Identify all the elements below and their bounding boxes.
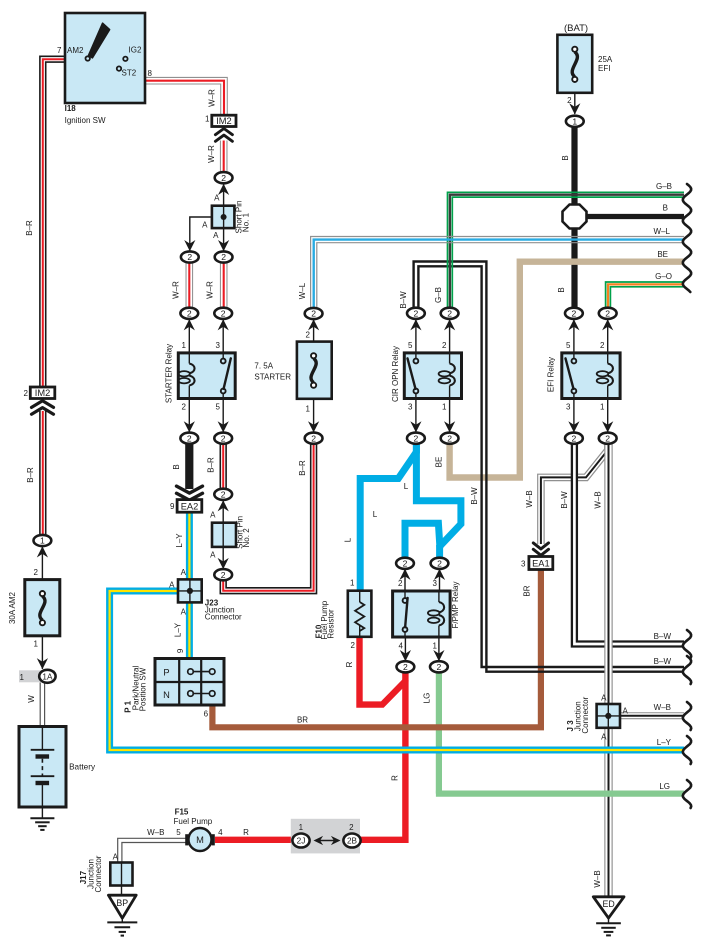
J3 junction connector box xyxy=(597,704,620,728)
wire W white from battery connector 1A to battery xyxy=(40,683,46,728)
svg-text:G–B: G–B xyxy=(656,182,672,191)
J17 junction connector box xyxy=(110,863,132,886)
starter relay pin 1 line xyxy=(188,320,190,354)
wire G-B from right edge to CIR OPN relay pin 2 xyxy=(448,192,685,308)
EFI relay pin 2 line xyxy=(607,320,609,354)
svg-text:2: 2 xyxy=(605,433,610,443)
svg-text:W–B: W–B xyxy=(525,490,534,507)
wire B-R from short pin No.2 bottom ellipse to 7.5A STARTER fuse pin 1 xyxy=(223,444,313,591)
svg-text:CIR OPN Relay: CIR OPN Relay xyxy=(391,346,400,402)
svg-text:W–L: W–L xyxy=(654,227,671,236)
short pin No.1 left branch line xyxy=(190,217,212,251)
svg-text:(BAT): (BAT) xyxy=(564,23,588,34)
svg-text:No. 2: No. 2 xyxy=(242,528,251,548)
svg-text:2: 2 xyxy=(437,558,442,568)
BP ground triangle xyxy=(108,895,136,918)
starter relay pin 3 line xyxy=(222,320,224,354)
svg-text:ED: ED xyxy=(602,899,614,909)
svg-text:2: 2 xyxy=(221,308,226,318)
svg-text:R: R xyxy=(391,775,400,781)
BP triangle stem xyxy=(121,918,123,922)
svg-text:L–Y: L–Y xyxy=(174,622,183,637)
ignition switch lever xyxy=(89,23,110,58)
svg-text:A: A xyxy=(181,568,187,577)
svg-text:1: 1 xyxy=(40,536,45,546)
svg-text:A: A xyxy=(169,581,175,590)
connector ellipses below F/PMP relay xyxy=(397,661,415,672)
svg-text:2: 2 xyxy=(306,331,311,340)
svg-text:B–W: B–W xyxy=(560,491,569,509)
connector ellipse below EFI fuse xyxy=(566,116,584,127)
svg-text:2: 2 xyxy=(33,568,38,577)
wire R red from fuel pump motor to connector 2J xyxy=(215,837,294,843)
svg-text:Resistor: Resistor xyxy=(326,609,335,639)
connector IM2 No.2 box xyxy=(30,387,55,399)
arrow into 30A AM2 fuse top ellipse xyxy=(37,546,48,557)
svg-text:2: 2 xyxy=(349,823,354,832)
F/PMP relay pin 2 line xyxy=(404,569,406,592)
connector ellipse above short pin No.2 xyxy=(214,489,232,500)
svg-text:A: A xyxy=(113,853,119,862)
Park/Neutral position SW P1 box xyxy=(155,659,224,706)
wire BE beige from CIR OPN relay pin 1 to right edge xyxy=(450,262,684,478)
fuel pump connector 2J 2B gray band xyxy=(291,819,360,854)
wire B from EFI fuse to junction node and EFI relay pin 5 (black) xyxy=(571,127,577,204)
wire L branch to F/PMP relay pin 2 xyxy=(405,523,440,558)
double chevron into EA2 xyxy=(177,493,203,500)
wire W-B from EFI relay pin 1 down through J3 to ED ground xyxy=(604,443,612,897)
svg-text:2: 2 xyxy=(351,641,356,650)
svg-text:No. 1: No. 1 xyxy=(241,212,250,232)
svg-text:B–R: B–R xyxy=(25,220,34,236)
svg-text:2J: 2J xyxy=(297,836,306,845)
double chevron into IM2 No.2 xyxy=(32,401,54,408)
svg-text:STARTER Relay: STARTER Relay xyxy=(164,344,173,403)
svg-text:B–R: B–R xyxy=(206,457,215,473)
svg-text:P: P xyxy=(163,668,169,678)
svg-text:STARTER: STARTER xyxy=(254,373,291,382)
svg-text:1: 1 xyxy=(299,823,304,832)
svg-text:1: 1 xyxy=(20,673,25,682)
svg-text:BR: BR xyxy=(297,716,308,725)
svg-text:B–R: B–R xyxy=(298,460,307,476)
wire B-R from ignition SW pin 7 to IM2 connector (left side) xyxy=(43,59,65,387)
J23 junction connector box xyxy=(178,579,202,602)
wire B-R from starter relay pin 5 to short pin No.2 xyxy=(219,443,226,489)
short pin No.1 bottom pin line xyxy=(223,228,225,251)
svg-text:Position SW: Position SW xyxy=(138,667,147,711)
svg-text:4: 4 xyxy=(218,828,223,837)
svg-text:A: A xyxy=(213,231,219,240)
wire W-B from fuel pump to J17 junction connector xyxy=(186,838,215,843)
svg-text:2: 2 xyxy=(24,389,29,398)
svg-text:L–Y: L–Y xyxy=(175,533,184,548)
30A AM2 fuse box xyxy=(25,580,60,636)
svg-text:B–W: B–W xyxy=(654,632,672,641)
J17 junction connector internal line and line to BP ground xyxy=(121,863,123,896)
wire G-O from right edge to EFI relay pin 2 xyxy=(606,282,684,308)
EFI relay pin 3 line xyxy=(573,399,575,433)
svg-text:AM2: AM2 xyxy=(67,46,84,55)
svg-text:2: 2 xyxy=(311,433,316,443)
connector ellipses below short pin No.1 xyxy=(181,251,199,262)
wire B-W from EFI relay pin 3 to right edge xyxy=(574,443,684,644)
short pin No.2 top pin line xyxy=(222,501,224,524)
wire B-W from CIR OPN relay pin 5 around to right edge (outer line) xyxy=(414,262,684,672)
svg-text:L: L xyxy=(373,510,378,519)
CIR OPN relay pin 3 line xyxy=(415,399,417,433)
svg-text:1: 1 xyxy=(600,403,605,412)
arrow into battery connector 1A ellipse xyxy=(37,658,48,669)
svg-text:B–R: B–R xyxy=(26,467,35,483)
svg-text:1: 1 xyxy=(442,403,447,412)
EFI fuse pin 2 line xyxy=(574,93,576,114)
svg-text:W–B: W–B xyxy=(654,703,671,712)
svg-text:2: 2 xyxy=(182,403,187,412)
svg-text:A: A xyxy=(214,194,220,203)
wire LG vertical from F/PMP relay pin 1 down xyxy=(436,672,442,794)
ED triangle stem xyxy=(608,918,610,923)
svg-text:I18: I18 xyxy=(65,104,77,113)
svg-text:EA1: EA1 xyxy=(532,559,550,569)
connector ellipse above 30A AM2 fuse xyxy=(34,535,52,546)
svg-text:B: B xyxy=(172,464,181,469)
svg-text:5: 5 xyxy=(176,828,181,837)
svg-text:M: M xyxy=(196,835,204,845)
wire R red branch to fuel pump resistor pin 2 xyxy=(360,637,406,705)
svg-text:2: 2 xyxy=(567,96,572,105)
arrows into connector ellipses below relays xyxy=(184,421,195,432)
svg-text:8: 8 xyxy=(148,69,153,78)
svg-text:B: B xyxy=(561,155,570,160)
EFI fuse 25A (BAT) box xyxy=(557,35,592,93)
svg-text:2: 2 xyxy=(221,173,226,183)
svg-text:Battery: Battery xyxy=(69,763,96,772)
fuel pump F15 motor xyxy=(185,834,188,845)
battery to ground line xyxy=(41,806,43,818)
connector ellipse 2J xyxy=(292,834,309,848)
arrow into ellipse below short pin No.2 xyxy=(218,558,229,569)
double chevron into IM2 No.1 xyxy=(215,129,232,135)
svg-text:L: L xyxy=(344,537,353,542)
short pin No.2 bottom pin line xyxy=(222,547,224,570)
connector ellipse below short pin No.2 xyxy=(214,569,232,580)
starter relay pin 5 line xyxy=(222,399,224,433)
svg-text:Connector: Connector xyxy=(205,613,242,622)
fuel pump resistor F10 box xyxy=(348,591,372,637)
svg-text:ST2: ST2 xyxy=(122,69,137,78)
svg-text:EFI Relay: EFI Relay xyxy=(547,357,556,392)
svg-text:Connector: Connector xyxy=(94,855,103,892)
svg-text:1: 1 xyxy=(433,642,438,651)
ignition SW IG2 pin line xyxy=(128,58,145,60)
junction node octagon xyxy=(563,205,587,229)
right edge continuation squiggles xyxy=(683,184,691,292)
battery box xyxy=(19,727,66,808)
svg-text:6: 6 xyxy=(204,710,209,719)
svg-text:B–W: B–W xyxy=(399,291,408,309)
ignition switch ST2 contact xyxy=(117,66,121,70)
7.5A STARTER fuse box xyxy=(297,342,332,399)
wire L-Y from J23 left around to right edge xyxy=(110,591,684,750)
svg-text:1: 1 xyxy=(33,640,38,649)
wire W-R short pin No.1 to starter relay pin 3 xyxy=(220,263,228,309)
svg-text:IG2: IG2 xyxy=(129,46,142,55)
svg-text:Connector: Connector xyxy=(581,696,590,733)
F/PMP relay box xyxy=(393,591,451,637)
svg-text:1: 1 xyxy=(205,115,210,124)
svg-text:7: 7 xyxy=(57,46,62,55)
svg-text:2: 2 xyxy=(572,433,577,443)
arrows into short pin No.1 output ellipses xyxy=(184,240,195,251)
svg-text:2B: 2B xyxy=(347,836,358,845)
svg-text:W–R: W–R xyxy=(205,281,214,299)
svg-text:BR: BR xyxy=(523,585,532,596)
svg-text:2: 2 xyxy=(221,570,226,580)
wire B-R from IM2 connector to 30A AM2 fuse ellipse xyxy=(39,411,46,536)
svg-text:W–B: W–B xyxy=(593,870,602,887)
battery ground symbol xyxy=(30,817,54,819)
7.5A STARTER fuse pin 1 line xyxy=(313,399,315,433)
svg-text:2: 2 xyxy=(187,433,192,443)
svg-text:Ignition SW: Ignition SW xyxy=(65,116,106,125)
30A AM2 fuse pin 2 line xyxy=(41,547,43,581)
double chevron into EA1 xyxy=(533,549,548,555)
arrows into ellipses below F/PMP relay xyxy=(400,650,411,661)
svg-text:W–R: W–R xyxy=(207,145,216,163)
svg-text:1: 1 xyxy=(182,341,187,350)
EFI relay box xyxy=(562,353,620,399)
svg-text:BE: BE xyxy=(435,457,444,468)
wire B from starter relay pin 2 to EA2 chevron (thick black) xyxy=(185,443,193,489)
svg-text:5: 5 xyxy=(408,341,413,350)
svg-text:A: A xyxy=(210,551,216,560)
svg-text:W: W xyxy=(27,695,36,703)
svg-text:2: 2 xyxy=(221,489,226,499)
svg-text:F/PMP Relay: F/PMP Relay xyxy=(451,582,460,629)
svg-text:EA2: EA2 xyxy=(181,502,199,512)
inline connector arrows between 2J and 2B xyxy=(318,840,336,842)
svg-text:Fuel Pump: Fuel Pump xyxy=(174,817,213,826)
CIR OPN relay pin 5 line xyxy=(415,320,417,354)
svg-text:A: A xyxy=(202,221,208,230)
wire B from junction node to right edge xyxy=(586,214,684,219)
svg-text:1: 1 xyxy=(350,579,355,588)
svg-text:W–B: W–B xyxy=(594,491,603,508)
EFI relay pin 5 line xyxy=(573,320,575,354)
svg-text:1: 1 xyxy=(306,405,311,414)
svg-text:3: 3 xyxy=(408,403,413,412)
svg-text:B: B xyxy=(557,287,566,292)
connector IM2 No.1 box xyxy=(212,115,236,126)
svg-text:7. 5A: 7. 5A xyxy=(254,361,273,370)
svg-text:3: 3 xyxy=(433,579,438,588)
connector ellipses below relays row xyxy=(180,433,198,444)
svg-text:2: 2 xyxy=(442,341,447,350)
svg-text:L: L xyxy=(404,482,409,491)
connector EA2 box xyxy=(177,500,202,513)
svg-text:2: 2 xyxy=(447,433,452,443)
wire LG horizontal to right edge xyxy=(436,790,684,796)
BP ground symbol xyxy=(107,921,137,923)
svg-text:5: 5 xyxy=(216,403,221,412)
F/PMP relay pin 3 line xyxy=(439,569,441,592)
arrow into connector ellipse below IM2 No.1 xyxy=(218,184,229,195)
battery connector 1A ellipse xyxy=(39,670,55,683)
wire L light blue main run to F/PMP relay pin 3 xyxy=(416,443,461,558)
connector ellipses above F/PMP relay xyxy=(396,558,414,569)
svg-text:2: 2 xyxy=(437,662,442,672)
svg-text:R: R xyxy=(345,661,354,667)
wire W-R from ignition SW ST2 pin 8 to IM2 No.1 xyxy=(145,81,224,116)
7.5A STARTER fuse pin 2 line xyxy=(313,320,315,343)
wire W-B from J3 junction connector to right edge xyxy=(620,712,684,719)
CIR OPN relay pin 2 line xyxy=(449,320,451,354)
wire L light blue from CIR OPN relay pin 3 to fuel pump resistor pin 1 xyxy=(360,443,416,592)
svg-text:BP: BP xyxy=(116,898,128,908)
svg-text:IM2: IM2 xyxy=(35,388,51,398)
svg-text:4: 4 xyxy=(399,642,404,651)
ED ground symbol xyxy=(596,922,621,924)
wire W-L from right edge to 7.5A STARTER fuse pin 2 xyxy=(311,237,684,309)
svg-text:B–W: B–W xyxy=(470,487,479,505)
30A AM2 fuse pin 1 line xyxy=(41,636,43,669)
svg-text:F15: F15 xyxy=(175,808,189,817)
svg-text:W–L: W–L xyxy=(298,282,307,299)
svg-text:2: 2 xyxy=(221,252,226,262)
svg-text:BE: BE xyxy=(657,250,668,259)
svg-text:2: 2 xyxy=(187,252,192,262)
svg-text:2: 2 xyxy=(398,579,403,588)
connector ellipse 2B xyxy=(343,834,360,848)
svg-text:W–B: W–B xyxy=(147,828,164,837)
svg-text:LG: LG xyxy=(659,782,670,791)
svg-text:2: 2 xyxy=(414,433,419,443)
ignition switch I18 box xyxy=(65,13,145,103)
svg-text:1: 1 xyxy=(572,116,577,126)
svg-text:2: 2 xyxy=(403,558,408,568)
arrow into ellipse above short pin No.2 xyxy=(218,500,229,511)
svg-text:B–W: B–W xyxy=(654,657,672,666)
connector ellipse IM2-short pin No.1 xyxy=(215,172,233,183)
wire R red from F/PMP relay pin 4 down to fuel pump connector 2B xyxy=(360,672,406,840)
EFI relay pin 1 line xyxy=(607,399,609,433)
STARTER relay box xyxy=(178,353,235,399)
ED ground triangle xyxy=(593,897,624,918)
svg-text:30A AM2: 30A AM2 xyxy=(8,591,17,624)
svg-text:1A: 1A xyxy=(42,672,53,681)
svg-text:2: 2 xyxy=(572,308,577,318)
svg-text:3: 3 xyxy=(566,403,571,412)
CIR OPN relay pin 1 line xyxy=(449,399,451,433)
short pin No.2 box xyxy=(212,523,236,547)
wire B-W from CIR OPN relay pin 5 (inner line) xyxy=(418,266,684,667)
F/PMP relay pin 1 line xyxy=(438,637,440,662)
CIR OPN relay box xyxy=(404,353,461,399)
svg-text:N: N xyxy=(163,690,170,700)
ignition SW pin 7 line and contact xyxy=(65,58,85,60)
arrow into EFI fuse output ellipse xyxy=(569,103,580,114)
wire L-Y from EA2 down through J23 to Park/Neutral SW pin 9 xyxy=(186,512,193,580)
svg-text:2: 2 xyxy=(187,308,192,318)
svg-text:5: 5 xyxy=(566,341,571,350)
short pin No.1 box xyxy=(212,206,235,228)
F/PMP relay pin 4 line xyxy=(404,637,406,662)
starter relay pin 2 line xyxy=(188,399,190,433)
ignition switch IG2 contact xyxy=(123,57,127,61)
svg-text:B: B xyxy=(663,204,668,213)
svg-text:A: A xyxy=(623,707,629,716)
svg-text:2: 2 xyxy=(600,341,605,350)
short pin No.1 top pin line xyxy=(223,184,225,207)
battery connector 1A gray band xyxy=(19,670,55,682)
connector EA1 box xyxy=(529,557,553,570)
svg-text:2: 2 xyxy=(221,433,226,443)
svg-text:G–B: G–B xyxy=(434,287,443,303)
svg-text:2: 2 xyxy=(403,662,408,672)
svg-text:LG: LG xyxy=(423,693,432,704)
svg-text:L–Y: L–Y xyxy=(657,738,672,747)
svg-text:IM2: IM2 xyxy=(216,116,232,126)
svg-text:A: A xyxy=(601,733,607,742)
svg-text:W–R: W–R xyxy=(172,281,181,299)
svg-text:2: 2 xyxy=(605,308,610,318)
wire W-R short pin No.1 left branch to starter relay pin 1 xyxy=(186,263,194,309)
svg-text:A: A xyxy=(181,608,187,617)
svg-text:EFI: EFI xyxy=(598,64,610,73)
svg-text:9: 9 xyxy=(170,502,175,511)
svg-text:2: 2 xyxy=(447,308,452,318)
svg-text:9: 9 xyxy=(176,648,185,653)
wire W-R from IM2 No.1 chevron down to connector ellipse xyxy=(220,141,228,173)
svg-text:A: A xyxy=(601,694,607,703)
arrows into ellipses above F/PMP relay and resistor xyxy=(399,569,410,580)
svg-text:3: 3 xyxy=(521,560,526,569)
svg-text:2: 2 xyxy=(311,309,316,319)
ignition SW ST2 pin line xyxy=(119,71,145,81)
wire BR brown from EA1 to Park/Neutral SW pin 6 xyxy=(212,569,541,727)
wire W-B from EFI relay pin 1 branch to EA1 chevron xyxy=(541,443,608,544)
svg-text:W–R: W–R xyxy=(208,89,217,107)
connector ellipses above relays row xyxy=(180,308,198,319)
svg-text:R: R xyxy=(243,828,249,837)
svg-text:G–O: G–O xyxy=(655,272,672,281)
svg-text:2: 2 xyxy=(414,308,419,318)
svg-text:A: A xyxy=(210,511,216,520)
svg-text:3: 3 xyxy=(216,341,221,350)
arrows into connector ellipses above relays xyxy=(184,319,195,330)
